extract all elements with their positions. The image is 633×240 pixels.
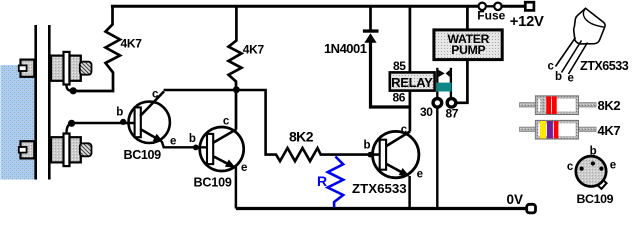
svg-text:BC109: BC109 <box>194 176 232 190</box>
svg-text:4K7: 4K7 <box>598 123 621 138</box>
svg-text:R: R <box>317 173 327 189</box>
svg-text:8K2: 8K2 <box>289 128 314 144</box>
svg-text:b: b <box>555 71 562 83</box>
svg-text:e: e <box>417 168 423 180</box>
svg-text:PUMP: PUMP <box>451 43 485 57</box>
svg-text:e: e <box>610 159 616 171</box>
svg-text:+12V: +12V <box>510 14 544 30</box>
svg-text:c: c <box>401 124 408 136</box>
svg-text:Fuse: Fuse <box>477 9 505 23</box>
svg-text:0V: 0V <box>506 192 523 207</box>
svg-text:4K7: 4K7 <box>243 43 265 57</box>
svg-text:b: b <box>590 146 597 158</box>
svg-text:87: 87 <box>446 106 459 120</box>
svg-text:b: b <box>116 107 123 119</box>
svg-text:BC109: BC109 <box>577 192 614 206</box>
svg-text:8K2: 8K2 <box>598 98 621 113</box>
svg-text:c: c <box>548 61 555 73</box>
svg-text:e: e <box>241 162 247 174</box>
svg-text:b: b <box>364 139 371 151</box>
svg-text:c: c <box>567 161 574 173</box>
svg-text:e: e <box>170 135 176 147</box>
svg-text:4K7: 4K7 <box>121 36 143 50</box>
svg-text:e: e <box>568 73 574 85</box>
svg-text:1N4001: 1N4001 <box>324 41 367 56</box>
svg-text:c: c <box>152 88 159 100</box>
svg-text:ZTX6533: ZTX6533 <box>580 59 629 73</box>
svg-text:ZTX6533: ZTX6533 <box>352 181 407 196</box>
svg-text:85: 85 <box>393 59 406 73</box>
svg-text:BC109: BC109 <box>124 148 162 162</box>
svg-text:b: b <box>189 133 196 145</box>
svg-text:30: 30 <box>420 105 433 119</box>
svg-text:c: c <box>223 115 230 127</box>
svg-text:RELAY: RELAY <box>391 75 433 90</box>
svg-text:86: 86 <box>393 91 406 105</box>
